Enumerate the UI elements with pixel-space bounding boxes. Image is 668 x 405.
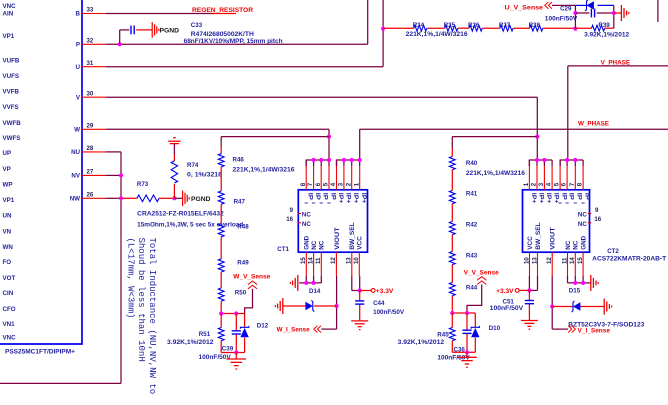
svg-text:IP: IP — [322, 193, 329, 200]
wire CT2 IP- bus — [560, 160, 583, 166]
svg-text:33: 33 — [87, 7, 94, 14]
wire CT1 IP- bus — [306, 160, 329, 166]
value label 3.92K,1%/2012 (R39) — [584, 31, 630, 38]
wire R50 to sense row — [220, 301, 222, 313]
wire W_PHASE — [360, 129, 668, 160]
IC value label PSS25MC1FT/DIPIPM+ — [5, 349, 75, 356]
wire R45 bottom — [451, 341, 453, 353]
junction R73/R74/PGND node — [172, 196, 176, 200]
label D12 — [257, 323, 269, 330]
label R47 — [234, 199, 246, 206]
label R35 — [444, 22, 456, 29]
CT1 bottom pin numbers — [300, 257, 360, 264]
offpage connector U_V_Sense — [545, 2, 552, 9]
wire D12 branch — [244, 314, 246, 353]
label R48 — [237, 224, 249, 231]
junction C39 bottom — [234, 350, 238, 354]
capacitor C44 — [355, 301, 364, 304]
IC U? PSS25MC1FT/DIPIPM+ body (left module box) — [0, 0, 82, 344]
resistor R36 — [469, 25, 482, 31]
svg-text:IP+: IP+ — [545, 193, 552, 204]
resistor R48 — [218, 224, 224, 237]
svg-text:0, 1%/3216: 0, 1%/3216 — [187, 171, 223, 178]
svg-text:IP+: IP+ — [337, 193, 344, 204]
ground (CT2 pins 11/14/15, sideways) — [591, 275, 598, 291]
wire C39 branch — [235, 314, 237, 353]
wire to ground (C29) — [614, 12, 621, 14]
svg-text:10: 10 — [353, 257, 360, 264]
value label 221K,1%,1/4W3216 (R40) — [466, 170, 526, 177]
wire R50 link — [220, 272, 222, 288]
net label V_I_Sense — [578, 328, 611, 335]
wire C44 branch — [359, 291, 361, 321]
svg-text:28: 28 — [87, 145, 94, 152]
svg-text:R41: R41 — [466, 191, 478, 198]
wire bottom row (left cluster) — [221, 352, 244, 354]
wire R73 to node — [159, 197, 175, 199]
IC left-side net name labels (VNC..VNC) — [3, 3, 22, 342]
label D14 — [309, 288, 321, 295]
svg-text:IP+: IP+ — [352, 193, 359, 204]
svg-text:UN: UN — [3, 213, 12, 220]
capacitor C33 — [131, 26, 134, 35]
value label ACS722KMATR-20AB-T — [592, 255, 666, 262]
wire R34-R38 chain — [383, 27, 575, 29]
label D10 — [489, 325, 501, 332]
svg-text:R474I26805002K/TH: R474I26805002K/TH — [191, 31, 255, 38]
CT2 top pin stubs — [529, 160, 583, 190]
label R38 — [529, 22, 541, 29]
label C33 — [191, 22, 203, 29]
label R49 — [237, 260, 249, 267]
resistor R39 — [592, 25, 605, 31]
resistor R43 — [449, 252, 455, 265]
svg-text:3.92K,1%/2012: 3.92K,1%/2012 — [584, 31, 630, 38]
net label U_V_Sense — [505, 4, 544, 11]
svg-text:BW_SEL: BW_SEL — [535, 222, 542, 250]
wire pin27 NV — [106, 174, 121, 176]
svg-text:12: 12 — [330, 257, 337, 264]
label D15 — [569, 287, 581, 294]
wire VIOUT pin12 down (CT2) — [551, 276, 553, 329]
ground (D14, sideways) — [275, 298, 282, 314]
svg-text:WN: WN — [3, 244, 14, 251]
svg-text:P: P — [76, 42, 80, 49]
svg-text:R40: R40 — [466, 160, 478, 167]
label R37 — [499, 22, 511, 29]
svg-text:IP: IP — [329, 193, 336, 200]
svg-text:VVFB: VVFB — [3, 89, 20, 96]
note rotated text: Total Inductance — [126, 238, 157, 395]
svg-text:IP+: IP+ — [553, 193, 560, 204]
IC pin numbers 33..26 — [87, 7, 94, 199]
CT2 bottom pin names — [527, 222, 588, 250]
svg-text:UP: UP — [3, 150, 12, 157]
svg-text:31: 31 — [87, 60, 94, 67]
svg-text:12: 12 — [546, 257, 553, 264]
wire C33 branch — [120, 30, 130, 44]
net label W_V_Sense — [233, 273, 271, 280]
wire R51 bottom — [220, 341, 222, 353]
svg-text:C39: C39 — [222, 346, 234, 353]
svg-text:D12: D12 — [257, 323, 269, 330]
svg-text:VNC: VNC — [3, 335, 17, 342]
value label 3.92K,1%/2012 (R51) — [167, 339, 214, 346]
svg-text:R73: R73 — [137, 181, 149, 188]
svg-text:PGND: PGND — [160, 27, 180, 34]
resistor R42 — [449, 222, 455, 235]
svg-text:NC: NC — [578, 212, 587, 219]
svg-text:221K,1%,1/4W/3216: 221K,1%,1/4W/3216 — [233, 167, 296, 174]
diode D14 (zener) — [283, 300, 336, 311]
resistor R74 — [171, 161, 177, 183]
svg-text:D14: D14 — [309, 288, 321, 295]
svg-text:VUFB: VUFB — [3, 58, 20, 65]
junction V feed / R40 wire — [535, 135, 539, 139]
svg-text:100nF/50V: 100nF/50V — [373, 309, 405, 316]
svg-text:100nF/50V: 100nF/50V — [490, 305, 524, 312]
svg-text:11: 11 — [561, 257, 568, 264]
CT1 bottom pin names — [304, 222, 364, 250]
wire pin33 B to REGEN_RESISTOR — [106, 13, 236, 15]
svg-text:3.92K,1%/2012: 3.92K,1%/2012 — [398, 339, 445, 346]
svg-text:32: 32 — [87, 38, 94, 45]
label C29 — [560, 6, 572, 13]
diode D12 (zener) — [240, 326, 248, 337]
svg-text:29: 29 — [87, 123, 94, 130]
svg-text:C33: C33 — [191, 22, 203, 29]
svg-text:IP+: IP+ — [530, 193, 537, 204]
label +3.3V (CT1) — [376, 288, 394, 295]
label PGND (node) — [191, 196, 211, 203]
svg-text:27: 27 — [87, 169, 94, 176]
wire pin26 NW — [106, 197, 121, 199]
svg-text:16: 16 — [286, 216, 293, 223]
svg-text:Total Inductance (NU,NV,NW to: Total Inductance (NU,NV,NW to — [147, 238, 157, 395]
svg-text:C29: C29 — [560, 6, 572, 13]
svg-text:14: 14 — [569, 257, 576, 264]
junction CT2 VCC node — [527, 288, 531, 292]
label R43 — [466, 253, 478, 260]
wire R48 link — [220, 204, 222, 223]
value label 100nF/50V (C29) — [545, 15, 578, 22]
svg-text:16: 16 — [594, 216, 601, 223]
label C44 — [373, 300, 385, 307]
resistor R35 — [445, 25, 458, 31]
svg-text:PGND: PGND — [191, 196, 211, 203]
offpage connector W_V_Sense — [248, 281, 257, 289]
junctions CT2 GND row — [573, 281, 585, 285]
value label 221K,1%,1/4W/3216 (R34..R38) — [406, 31, 469, 38]
value label 100nF/50V (C44) — [373, 309, 405, 316]
svg-text:D15: D15 — [569, 287, 581, 294]
wire to ground (C36) — [466, 352, 468, 357]
wire C51 branch — [528, 290, 530, 320]
svg-text:R43: R43 — [466, 253, 478, 260]
junction C36 bottom — [465, 350, 469, 354]
svg-text:D10: D10 — [489, 325, 501, 332]
svg-text:15mOhm,1%,3W, 5 sec 5x overloa: 15mOhm,1%,3W, 5 sec 5x overload — [137, 221, 243, 228]
svg-text:U: U — [76, 64, 81, 71]
value label R474I26805002K/TH — [191, 31, 255, 38]
value label 100nF/50V (C39) — [199, 354, 232, 361]
wire R44 to sense row — [451, 296, 453, 313]
value label BZT52C3V3-7-F/SOD123 — [568, 321, 645, 328]
power symbol PGND (C33) — [152, 22, 159, 38]
wire C29 branch — [575, 12, 613, 14]
wire V_I_Sense — [552, 328, 568, 330]
CT2 top pin numbers — [523, 182, 584, 186]
svg-text:CRA2512-FZ-R015ELF/6432: CRA2512-FZ-R015ELF/6432 — [137, 210, 224, 217]
CT1 top pin stubs — [306, 160, 360, 190]
wire NU/NV/NW bus down to bottom — [0, 152, 121, 384]
svg-text:R44: R44 — [466, 284, 478, 291]
svg-text:NC: NC — [565, 240, 572, 250]
svg-text:R35: R35 — [444, 22, 456, 29]
wire R39 up to C29 node — [605, 5, 614, 28]
net label V_PHASE — [601, 60, 631, 67]
wire ground to R74 — [173, 144, 175, 161]
net label W_I_Sense — [277, 326, 311, 333]
value label 100nF/50V (C51) — [490, 305, 524, 312]
wire CT2 BW_SEL/VCC to +3.3V — [529, 276, 537, 290]
label R50 — [235, 289, 247, 296]
net label REGEN_RESISTOR — [192, 7, 254, 14]
label C51 — [503, 298, 515, 305]
svg-text:VNC: VNC — [3, 3, 17, 10]
svg-text:VP1: VP1 — [3, 197, 15, 204]
svg-text:11: 11 — [315, 257, 322, 264]
svg-text:U_V_Sense: U_V_Sense — [505, 4, 544, 11]
ground (C39 cluster) — [227, 359, 247, 369]
label R39 — [598, 22, 610, 29]
wire CT1 GND row — [299, 276, 321, 283]
svg-text:BW_SEL: BW_SEL — [349, 222, 356, 250]
wire R74 to node — [173, 184, 175, 198]
label R51 — [199, 331, 211, 338]
wire pin30 V to CT2 — [106, 97, 537, 160]
svg-text:IP+: IP+ — [344, 193, 351, 204]
resistor R51 — [218, 328, 224, 341]
svg-text:NC: NC — [302, 221, 311, 228]
diode (zener, V_I clamp) — [552, 301, 603, 312]
svg-text:CT1: CT1 — [277, 246, 289, 253]
wire pin31 U up to top edge — [106, 0, 383, 67]
svg-text:GND: GND — [304, 235, 311, 250]
wire V feed to R40 column — [452, 137, 537, 157]
wire to ground (C39) — [235, 353, 237, 359]
svg-text:VWFB: VWFB — [3, 120, 22, 127]
IC right-side pin stubs (pins 33..26) — [82, 14, 106, 199]
svg-text:221K,1%,1/4W/3216: 221K,1%,1/4W/3216 — [406, 31, 469, 38]
CT2 NC pins 9/16 — [578, 207, 602, 228]
junctions CT1 GND row — [304, 281, 316, 285]
value label CRA2512-FZ-R015ELF/6432 — [137, 210, 224, 217]
wire VIOUT pin12 down — [336, 276, 338, 329]
CT1 top pin numbers — [300, 182, 361, 186]
svg-text:15: 15 — [300, 257, 307, 264]
IC CT2 body — [523, 190, 590, 252]
label R46 — [233, 157, 245, 164]
label CT2 — [607, 248, 619, 255]
junction C36 top — [465, 311, 469, 315]
svg-text:R49: R49 — [237, 260, 249, 267]
svg-text:15: 15 — [577, 257, 584, 264]
svg-text:W: W — [74, 127, 80, 134]
resistor R41 — [449, 191, 455, 204]
wire top-right stub — [657, 0, 659, 22]
svg-text:26: 26 — [87, 192, 94, 199]
junctions CT2 top bus — [535, 158, 578, 162]
svg-text:VCC: VCC — [357, 236, 364, 250]
svg-text:13: 13 — [531, 257, 538, 264]
svg-text:VP1: VP1 — [3, 33, 15, 40]
diode D10 (zener) — [471, 326, 479, 337]
wire U_V_Sense to node — [552, 5, 575, 28]
label R34 — [413, 22, 425, 29]
wire V_PHASE — [568, 66, 668, 160]
svg-text:GND: GND — [581, 235, 588, 250]
svg-text:R46: R46 — [233, 157, 245, 164]
svg-text:R38: R38 — [529, 22, 541, 29]
svg-text:NW: NW — [70, 196, 80, 203]
junction P/C33 — [118, 42, 122, 46]
svg-text:3.92K,1%/2012: 3.92K,1%/2012 — [167, 339, 214, 346]
junctions CT1 top bus — [312, 158, 362, 162]
svg-text:R50: R50 — [235, 289, 247, 296]
wire W_I_Sense — [321, 328, 336, 330]
CT1 NC pins 9/16 — [286, 207, 311, 228]
wire CT2 GND row — [568, 276, 591, 283]
wire R44 link — [451, 265, 453, 283]
junction V zener/VIOUT — [550, 304, 554, 308]
wire chain dot to R39 — [575, 27, 591, 29]
wire R49 link — [220, 237, 222, 259]
wire bottom row (right cluster) — [452, 351, 475, 353]
svg-text:IP: IP — [561, 193, 568, 200]
wire R43 link — [451, 235, 453, 252]
wire CT1 BW_SEL/VCC to +3.3V — [352, 276, 360, 291]
label R74 — [187, 162, 199, 169]
value label 68nF/1KV/10%/MPP, 15mm pitch — [184, 38, 283, 45]
svg-text:IP+: IP+ — [537, 193, 544, 204]
value label 221K (R46) — [233, 167, 296, 174]
svg-text:R74: R74 — [187, 162, 199, 169]
ground (C29, sideways) — [621, 5, 628, 21]
junction R51 top — [219, 311, 223, 315]
power +3.3V (CT1) — [360, 289, 375, 293]
ground (V_I clamp, sideways) — [604, 299, 611, 315]
wire sense row (left cluster) — [221, 313, 244, 315]
wire R45 link — [451, 313, 453, 328]
junction D14/VIOUT — [335, 304, 339, 308]
resistor R47 — [218, 191, 224, 204]
resistor R34 — [414, 25, 427, 31]
wire pin29 W to CT1 — [106, 129, 329, 160]
svg-text:30: 30 — [87, 90, 94, 97]
svg-text:100nF/50V: 100nF/50V — [545, 15, 578, 22]
junction U wire / R34 chain — [381, 27, 385, 31]
resistor R44 — [449, 283, 455, 296]
ground (C44) — [351, 321, 368, 330]
wire R47 link — [220, 167, 222, 191]
svg-text:FO: FO — [3, 259, 12, 266]
wire CT1 IP+ bus — [337, 160, 360, 166]
resistor R40 — [449, 157, 455, 170]
svg-text:R45: R45 — [437, 332, 449, 339]
wire W_V_Sense down — [245, 289, 253, 314]
ground (above R74) — [168, 138, 180, 144]
svg-text:AIN: AIN — [3, 11, 14, 18]
ground (CT1 pins 15/14/11, sideways) — [290, 275, 297, 291]
wire pin32 P up to top edge — [106, 0, 368, 44]
wire C36 branch — [466, 313, 468, 352]
junction C29 right — [612, 11, 616, 15]
svg-text:VCC: VCC — [527, 236, 534, 250]
resistor R49 — [218, 259, 224, 272]
wire C33 to PGND — [136, 29, 152, 31]
svg-text:R34: R34 — [413, 22, 425, 29]
resistor R37 — [500, 25, 513, 31]
svg-text:VN: VN — [3, 228, 12, 235]
IC pin names B P U V W NU NV NW — [70, 11, 81, 203]
svg-text:IP: IP — [576, 193, 583, 200]
junction R45 top — [450, 311, 454, 315]
junction C39 top — [234, 311, 238, 315]
IC CT1 body — [298, 190, 367, 252]
svg-text:NC: NC — [573, 240, 580, 250]
svg-text:IP: IP — [568, 193, 575, 200]
svg-text:WP: WP — [3, 182, 13, 189]
svg-text:+3.3V: +3.3V — [376, 288, 394, 295]
wire sense row (right cluster) — [452, 312, 475, 314]
svg-text:B: B — [76, 11, 81, 18]
CT2 bottom pin numbers — [523, 257, 584, 264]
svg-text:R47: R47 — [234, 199, 246, 206]
junction W feed / R46 wire — [327, 135, 331, 139]
junction C29 left — [573, 11, 577, 15]
junction NV — [119, 173, 123, 177]
offpage connector V_I_Sense — [568, 326, 575, 333]
capacitor C39 — [232, 331, 241, 334]
label R44 — [466, 284, 478, 291]
svg-text:NV: NV — [71, 173, 80, 180]
svg-text:C44: C44 — [373, 300, 385, 307]
svg-text:VUFS: VUFS — [3, 73, 20, 80]
label R45 — [437, 332, 449, 339]
svg-text:R51: R51 — [199, 331, 211, 338]
net label W_PHASE — [578, 121, 609, 128]
svg-text:NC: NC — [578, 221, 587, 228]
svg-text:W_PHASE: W_PHASE — [578, 121, 609, 128]
svg-text:PSS25MC1FT/DIPIPM+: PSS25MC1FT/DIPIPM+ — [5, 349, 75, 356]
svg-text:IP: IP — [584, 193, 591, 200]
svg-text:NC: NC — [302, 212, 311, 219]
svg-text:NC: NC — [311, 240, 318, 250]
junction CT1 VCC node — [358, 288, 362, 292]
svg-text:NC: NC — [319, 240, 326, 250]
svg-text:VP: VP — [3, 166, 11, 173]
svg-text:+3.3V: +3.3V — [496, 288, 514, 295]
svg-text:R42: R42 — [466, 222, 478, 229]
svg-text:CT2: CT2 — [607, 248, 619, 255]
svg-text:IP: IP — [314, 193, 321, 200]
CT1 bottom pin stubs — [306, 252, 359, 276]
offpage connector W_I_Sense — [314, 326, 321, 333]
wire V_V_Sense down — [467, 285, 482, 314]
CT2 bottom pin stubs — [530, 252, 584, 276]
svg-text:R36: R36 — [468, 22, 480, 29]
